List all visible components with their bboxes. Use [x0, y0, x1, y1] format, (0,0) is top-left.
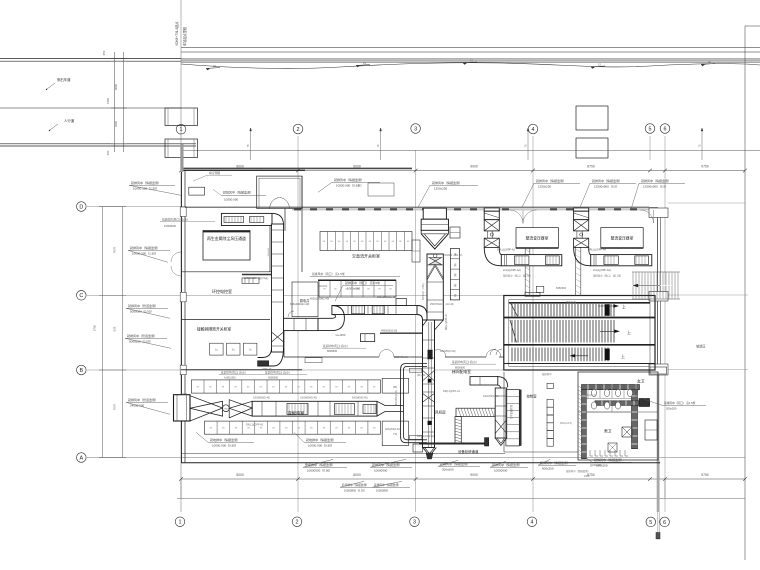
- svg-text:8350600: 8350600: [556, 286, 567, 290]
- svg-text:900x600: 900x600: [318, 285, 328, 288]
- svg-text:9000: 9000: [470, 473, 478, 477]
- duct H0 horizontal top: [221, 213, 272, 225]
- svg-text:600x(A1.5): 600x(A1.5): [585, 394, 596, 397]
- svg-text:上: 上: [621, 353, 625, 359]
- svg-text:就排风中（风口） 高1.5米: 就排风中（风口） 高1.5米: [593, 274, 622, 278]
- D1 circle fitting: [223, 405, 230, 412]
- svg-text:DR(L1)(OP1-A1: DR(L1)(OP1-A1: [443, 390, 461, 393]
- escalator diagonal band1: [510, 302, 518, 316]
- escalator top band thick edge: [509, 302, 650, 304]
- bottom secondary line: [177, 498, 745, 500]
- svg-text:9750: 9750: [701, 164, 709, 168]
- duct H1 horizontal: [332, 306, 417, 315]
- grid line 5 vertical: [649, 136, 651, 160]
- svg-text:10500.000: 10500.000: [224, 198, 239, 202]
- svg-text:400x250(3.40): 400x250(3.40): [385, 428, 401, 431]
- svg-text:9000: 9000: [470, 164, 478, 168]
- svg-text:2: 2: [297, 127, 300, 133]
- grid bubble D: [77, 202, 87, 212]
- road vent shaft rect 2: [576, 138, 608, 158]
- AHU1 damper stack: [450, 249, 459, 300]
- svg-text:就排风中: 就排风中: [542, 372, 552, 376]
- svg-text:850(A1.5): 850(A1.5): [566, 301, 576, 304]
- escalator shaft wall right: [574, 246, 576, 296]
- escalator arrow band2: [600, 330, 616, 332]
- svg-text:阀: 阀: [454, 273, 457, 277]
- svg-text:250: 250: [106, 150, 110, 155]
- svg-text:9000: 9000: [236, 164, 244, 168]
- svg-text:0000000: 0000000: [268, 376, 279, 380]
- svg-text:就地排中（情报监测）: 就地排中（情报监测）: [306, 437, 336, 442]
- svg-text:就是排风(风口) 高(小): 就是排风(风口) 高(小): [162, 217, 188, 221]
- north piered wall: [185, 207, 658, 209]
- toilet fixtures row2: [591, 402, 596, 409]
- small duct box: [361, 334, 375, 342]
- small shelf rect: [305, 358, 322, 363]
- wall x284 vertical: [284, 209, 286, 232]
- svg-text:DR(L1)(OPF-A1: DR(L1)(OPF-A1: [417, 435, 435, 438]
- svg-text:2x1(L)(OPF-A2): 2x1(L)(OPF-A2): [503, 269, 521, 272]
- svg-text:就是排中(风口) 高(小): 就是排中(风口) 高(小): [221, 370, 246, 374]
- wall x270 room east: [269, 226, 271, 273]
- svg-text:1: 1: [180, 127, 183, 133]
- small square fixture: [608, 443, 617, 452]
- svg-text:12500x500（0.5）: 12500x500（0.5）: [643, 184, 668, 188]
- escalator shaft wall left: [524, 246, 526, 296]
- north wall left segment: [181, 169, 305, 171]
- AHU3: [574, 208, 589, 211]
- svg-text:就是排中(风口) 商(小): 就是排中(风口) 商(小): [452, 360, 477, 364]
- svg-text:就排风中（风口） 高1.5米: 就排风中（风口） 高1.5米: [503, 274, 532, 278]
- grid line 2 vertical: [297, 136, 299, 512]
- svg-text:10000800（0.30）: 10000800（0.30）: [344, 488, 367, 492]
- grid56 stem bottom: [657, 460, 659, 539]
- V2b dampers X: [423, 370, 435, 381]
- svg-text:就排风中（情报监测）: 就排风中（情报监测）: [440, 461, 470, 466]
- road right thick pavement edge: [181, 59, 760, 62]
- bottom comb ticks: [590, 450, 593, 456]
- svg-text:4: 4: [531, 520, 534, 526]
- svg-text:600x250(At1.40): 600x250(At1.40): [377, 295, 396, 299]
- svg-text:600x250: 600x250: [268, 247, 270, 256]
- svg-text:就排风中（情报监测）: 就排风中（情报监测）: [641, 178, 671, 183]
- small rect upper-left: [189, 187, 205, 195]
- small vertical dim arrows mid: [250, 128, 252, 160]
- D1 bowtie transition 1: [190, 396, 223, 421]
- road dimension line x=114: [114, 52, 116, 152]
- V1 end dark grille: [258, 361, 269, 366]
- svg-text:就排风中（管道监测）: 就排风中（管道监测）: [128, 303, 158, 308]
- toilets outline: [578, 372, 658, 460]
- escalator arrow band1: [598, 305, 615, 307]
- svg-text:环控电控室: 环控电控室: [212, 288, 232, 294]
- south wall: [181, 462, 660, 464]
- duct H2 branch: [470, 377, 498, 385]
- svg-text:信号设备检修: 信号设备检修: [509, 404, 513, 419]
- svg-text:10000.000（0.50）: 10000.000（0.50）: [308, 443, 334, 447]
- road left bottom curb: [0, 143, 196, 145]
- svg-text:就排风中（风口） 高1.5米: 就排风中（风口） 高1.5米: [664, 401, 696, 405]
- control room walls: [503, 372, 505, 452]
- grid line 4 vertical: [532, 136, 534, 512]
- svg-text:就排风中（情报监测）: 就排风中（情报监测）: [131, 180, 161, 185]
- svg-text:就排风中（情报监测）: 就排风中（情报监测）: [223, 190, 253, 195]
- svg-text:阀: 阀: [454, 263, 457, 267]
- svg-text:6: 6: [663, 520, 666, 526]
- east wall double: [657, 208, 659, 460]
- svg-text:400x250(3.40): 400x250(3.40): [396, 390, 398, 405]
- svg-text:1: 1: [179, 520, 182, 526]
- exit stairs northeast: [632, 271, 680, 273]
- svg-text:就排风中（情报监测）: 就排风中（情报监测）: [432, 180, 462, 185]
- svg-text:就排风中（管道监测）: 就排风中（管道监测）: [127, 333, 157, 338]
- svg-text:4800: 4800: [114, 83, 118, 90]
- svg-text:就排风中（管道监测）: 就排风中（管道监测）: [128, 397, 158, 402]
- grid line 6 vertical: [664, 136, 666, 512]
- svg-text:12500x500（0.5）: 12500x500（0.5）: [594, 184, 619, 188]
- svg-text:10000000（0.50）: 10000000（0.50）: [307, 468, 332, 472]
- road left curb lines: [0, 58, 181, 60]
- svg-text:400x250(3.40): 400x250(3.40): [483, 395, 499, 398]
- grid bubbles top: [176, 125, 186, 135]
- road vent shaft rect 1: [576, 106, 608, 130]
- svg-text:就排风中（情报监测）: 就排风中（情报监测）: [372, 462, 402, 467]
- right border line: [744, 26, 746, 560]
- svg-text:2500700x0.5（At1.40）: 2500700x0.5（At1.40）: [430, 302, 456, 306]
- toilet duct dark top: [582, 385, 640, 390]
- corridor wall x302: [301, 176, 303, 272]
- west wall door arcs outside: [171, 252, 181, 262]
- svg-text:上: 上: [622, 304, 626, 310]
- wall y357 with doors: [284, 356, 379, 358]
- toilet partitions extra: [587, 390, 589, 399]
- svg-text:就排风中（情报监测）: 就排风中（情报监测）: [536, 178, 566, 183]
- svg-text:就排风中（情报监测）: 就排风中（情报监测）: [540, 460, 570, 465]
- grid line C: [87, 294, 649, 296]
- svg-text:600x(A1.5): 600x(A1.5): [560, 422, 572, 425]
- svg-text:(OPF-A5: (OPF-A5: [262, 368, 272, 371]
- wall y319: [181, 319, 270, 321]
- D1 taper: [377, 401, 403, 416]
- room plate 整流变压器室 1: [516, 228, 558, 248]
- svg-text:就是排中(风口) 商(小): 就是排中(风口) 商(小): [323, 344, 348, 348]
- hatched L-duct vertical: [455, 417, 461, 444]
- svg-text:10000800: 10000800: [376, 488, 388, 492]
- svg-text:填空预留: 填空预留: [209, 171, 220, 175]
- road dimension line x=123: [123, 52, 125, 152]
- svg-text:7575: 7575: [113, 403, 117, 410]
- svg-text:YDK8+731.9起点: YDK8+731.9起点: [174, 21, 179, 46]
- svg-text:就排风中（情报监测）: 就排风中（情报监测）: [130, 245, 160, 250]
- duct V1 damper X: [272, 332, 284, 342]
- svg-text:8000: 8000: [353, 473, 361, 477]
- duct V2b vertical: [423, 320, 435, 448]
- D1 bowtie transition 2: [229, 400, 252, 418]
- svg-text:B: B: [79, 368, 83, 374]
- svg-text:交直流开关柜室: 交直流开关柜室: [352, 253, 380, 259]
- hatched L-duct horizontal: [456, 408, 495, 416]
- svg-text:6000800(5.40): 6000800(5.40): [352, 397, 368, 400]
- svg-text:4900000(3.30): 4900000(3.30): [381, 330, 397, 333]
- svg-text:10000000: 10000000: [494, 468, 508, 472]
- svg-text:4: 4: [532, 127, 535, 133]
- duct V1 vertical: [272, 224, 284, 352]
- toilets west hatch: [579, 386, 585, 390]
- svg-text:9000: 9000: [353, 164, 361, 168]
- svg-text:人行道: 人行道: [64, 118, 75, 123]
- wall on grid B dark: [181, 369, 302, 371]
- svg-text:DN20: DN20: [181, 393, 188, 396]
- black comb plate band1: [605, 305, 610, 316]
- svg-text:600x200: 600x200: [542, 466, 554, 470]
- cabinet row A: [506, 390, 519, 446]
- svg-text:4,000,000: 4,000,000: [224, 376, 236, 380]
- escalator outer box: [504, 296, 655, 371]
- grid line 1 vertical: [180, 0, 182, 512]
- top dimension line: [181, 170, 745, 172]
- duct stub left of fan: [413, 444, 423, 452]
- escalator band1 hatch: [511, 304, 513, 316]
- svg-text:3: 3: [413, 520, 416, 526]
- divider band1/2: [504, 317, 655, 319]
- room plate 整流变压器室 2: [601, 228, 643, 248]
- svg-text:1000: 1000: [584, 475, 590, 478]
- svg-text:10000800(5.40): 10000800(5.40): [253, 397, 270, 400]
- svg-text:上: 上: [627, 329, 631, 335]
- svg-text:10000800(5.40): 10000800(5.40): [300, 397, 317, 400]
- svg-text:5000: 5000: [236, 473, 244, 477]
- svg-text:DK(L1)(OPF-A5: DK(L1)(OPF-A5: [246, 424, 264, 427]
- AHU2: [484, 208, 499, 211]
- toilet duct dark west: [582, 390, 587, 459]
- svg-text:坡道区: 坡道区: [696, 344, 706, 349]
- svg-text:DR(L1)(OPF-A1: DR(L1)(OPF-A1: [445, 313, 448, 330]
- entrance vestibule room: [257, 176, 302, 208]
- duct V1 bottom elbow left: [258, 348, 284, 366]
- escalator arrow band3: [573, 355, 588, 357]
- svg-text:侧石车道: 侧石车道: [57, 77, 71, 82]
- svg-text:接触网隔离开关柜室: 接触网隔离开关柜室: [197, 327, 231, 332]
- escalator top small structures: [525, 293, 540, 297]
- svg-text:车站起点里程: 车站起点里程: [182, 26, 187, 46]
- H1 tick lines: [347, 306, 349, 315]
- svg-text:女卫: 女卫: [637, 379, 645, 384]
- svg-text:600x250(At1.40): 600x250(At1.40): [310, 297, 329, 301]
- divider band2/3: [504, 344, 655, 346]
- V2b center pipe: [428, 322, 430, 447]
- left dimension chains: [102, 207, 104, 458]
- svg-text:DRL(L)(OPF-A4: DRL(L)(OPF-A4: [588, 249, 607, 252]
- elbow H0-V1: [272, 213, 284, 226]
- svg-text:高600x200: 高600x200: [590, 463, 602, 467]
- svg-text:5: 5: [649, 520, 652, 526]
- svg-text:2x1(L)(OPF-A4): 2x1(L)(OPF-A4): [593, 269, 611, 272]
- svg-text:风机房: 风机房: [435, 410, 446, 415]
- AHU1 butterfly damper: [429, 258, 442, 265]
- svg-text:10000.000（1.50）: 10000.000（1.50）: [132, 251, 158, 255]
- right small rect outside: [650, 367, 667, 374]
- room plate top-left: [203, 231, 250, 261]
- svg-text:10000.000（0.50）: 10000.000（0.50）: [212, 443, 238, 447]
- toilet duct dark mid vertical: [632, 390, 638, 449]
- stream wavy line: [181, 63, 760, 69]
- svg-text:就排风中（情报监测）: 就排风中（情报监测）: [566, 469, 590, 473]
- svg-text:2700: 2700: [93, 324, 97, 331]
- svg-text:600x400(At1.40): 600x400(At1.40): [290, 302, 309, 306]
- door arcs north wall: [510, 210, 524, 224]
- svg-text:D: D: [79, 204, 83, 210]
- D1 end box: [174, 395, 191, 421]
- corridor dark line: [380, 332, 422, 334]
- TN box lower: [382, 421, 408, 446]
- east wall piers: [649, 208, 668, 218]
- AHU1 left small cells: [412, 240, 420, 262]
- svg-text:控制室: 控制室: [527, 394, 538, 399]
- svg-text:10500.000（0.5米）: 10500.000（0.5米）: [336, 182, 363, 187]
- door arcs left of escalator: [490, 349, 502, 355]
- svg-text:再生金属除尘风压通道: 再生金属除尘风压通道: [207, 236, 246, 241]
- road right top lines: [181, 47, 760, 49]
- grid line D: [87, 206, 649, 208]
- svg-text:1250x250: 1250x250: [538, 184, 552, 188]
- escalator band2 hatch: [511, 320, 513, 343]
- svg-text:250: 250: [102, 50, 106, 55]
- grid bubble C: [77, 291, 87, 301]
- svg-text:10009000: 10009000: [164, 224, 176, 228]
- D1 grille boxes: [287, 404, 308, 415]
- H1 riser box: [396, 298, 406, 305]
- svg-text:男卫: 男卫: [604, 429, 612, 434]
- entrance structures at road: [165, 108, 198, 126]
- grid line 3 vertical: [415, 150, 417, 512]
- svg-text:7075: 7075: [113, 246, 117, 253]
- 弱电井 room: [292, 282, 318, 317]
- comb C3 row above duct: [191, 380, 380, 393]
- comb C2: [319, 280, 396, 297]
- V4 bottom funnel: [495, 438, 507, 446]
- svg-text:9750: 9750: [701, 473, 709, 477]
- svg-text:5: 5: [649, 126, 652, 132]
- duct V4 vertical: [495, 388, 507, 438]
- toilet dark boxes: [639, 399, 650, 407]
- svg-text:(B): (B): [393, 385, 397, 389]
- AHU1 side box: [450, 227, 460, 238]
- duct L1 lower return: [284, 318, 319, 330]
- escalator diagonal band2: [510, 320, 517, 343]
- svg-text:梯间配电室: 梯间配电室: [452, 369, 471, 374]
- grille box left: [242, 278, 259, 284]
- svg-text:就排风中（情报监测）: 就排风中（情报监测）: [592, 178, 622, 183]
- bottom dimension line: [181, 478, 745, 480]
- H1 U-turn arcs: [318, 306, 344, 331]
- comb C2 header: [310, 276, 400, 278]
- door arcs courtyard: [270, 198, 280, 210]
- svg-text:8000600: 8000600: [455, 366, 466, 370]
- TN box upper: [382, 378, 408, 393]
- svg-text:700x900（At1.40）: 700x900（At1.40）: [443, 253, 464, 257]
- svg-text:1000x600: 1000x600: [347, 286, 361, 290]
- west wall: [181, 170, 183, 463]
- svg-text:3300: 3300: [114, 120, 118, 127]
- V2b bottom fan: [423, 448, 437, 457]
- three small boxes: [210, 343, 224, 355]
- H1 grille boxes: [352, 306, 365, 314]
- svg-text:就排风中（情报监测）: 就排风中（情报监测）: [492, 462, 522, 467]
- interior bottom wall: [181, 453, 505, 455]
- svg-text:阀: 阀: [454, 294, 457, 298]
- svg-text:2500700x0.5: 2500700x0.5: [394, 356, 408, 359]
- duct H3: [501, 255, 562, 266]
- svg-text:DRL(L)(OPF-A2: DRL(L)(OPF-A2: [497, 249, 516, 252]
- cabinet row B: [547, 383, 553, 388]
- svg-text:8000600: 8000600: [327, 349, 338, 353]
- road left center line: [0, 107, 181, 109]
- svg-text:C: C: [79, 293, 83, 299]
- escalator band3 hatch: [511, 348, 513, 362]
- svg-text:6: 6: [664, 126, 667, 132]
- svg-text:就排风中（情报监测）: 就排风中（情报监测）: [374, 483, 401, 487]
- D1 main duct: [252, 401, 377, 416]
- svg-text:(KF)-A1: (KF)-A1: [417, 374, 426, 377]
- svg-text:阀: 阀: [454, 283, 457, 287]
- C-loop grille: [409, 368, 422, 372]
- escalator bottom edge: [504, 363, 655, 365]
- grid line A: [87, 457, 745, 459]
- duct C-loop: [401, 364, 427, 443]
- toilet duct second horizontal: [595, 401, 650, 406]
- svg-text:1250x250: 1250x250: [434, 186, 448, 190]
- svg-text:3: 3: [414, 126, 417, 132]
- svg-text:整流变压器室: 整流变压器室: [611, 236, 634, 241]
- AHU1: [423, 208, 446, 219]
- grid bubble A: [77, 453, 87, 463]
- door arcs on y357 wall: [379, 350, 387, 358]
- dark sill below room: [242, 274, 272, 276]
- cabinet row A dark edge: [520, 390, 522, 446]
- wall y272: [181, 271, 272, 273]
- comb C4 row below duct: [205, 421, 381, 434]
- duct V2a vertical: [427, 254, 443, 320]
- H2 elbow down: [497, 377, 508, 389]
- svg-text:2: 2: [296, 520, 299, 526]
- svg-text:10000000: 10000000: [374, 468, 388, 472]
- X box: [622, 427, 632, 437]
- elbow H1 down to V2: [417, 306, 427, 321]
- toilet fixtures row1: [591, 389, 596, 396]
- svg-text:TN: TN: [393, 432, 397, 436]
- svg-text:200x600: 200x600: [442, 467, 454, 471]
- svg-text:就排风中（情报监测）: 就排风中（情报监测）: [334, 177, 364, 182]
- duct H4: [591, 255, 652, 266]
- svg-text:就排风中（风口） 高1.5米: 就排风中（风口） 高1.5米: [345, 280, 380, 285]
- svg-text:625: 625: [113, 326, 117, 331]
- dark duct line bottom: [419, 443, 488, 445]
- svg-text:4000250(3.40): 4000250(3.40): [440, 350, 456, 353]
- toilet stall lines: [599, 385, 601, 398]
- svg-text:整流变压器室: 整流变压器室: [526, 236, 549, 241]
- svg-text:8750: 8750: [587, 164, 595, 168]
- svg-text:200x200: 200x200: [666, 406, 677, 410]
- svg-text:A: A: [79, 455, 83, 461]
- svg-text:就地排中（情报监测）: 就地排中（情报监测）: [210, 437, 240, 442]
- svg-text:就排风中（情报监测）: 就排风中（情报监测）: [594, 457, 624, 462]
- svg-text:7400: 7400: [106, 97, 110, 104]
- comb C1 交直流开关柜: [320, 232, 412, 251]
- svg-text:H+1900: H+1900: [336, 333, 346, 337]
- small label rect: [368, 183, 394, 196]
- grid bubbles bottom: [175, 517, 185, 527]
- flow arrows on wavy line: [206, 68, 220, 69]
